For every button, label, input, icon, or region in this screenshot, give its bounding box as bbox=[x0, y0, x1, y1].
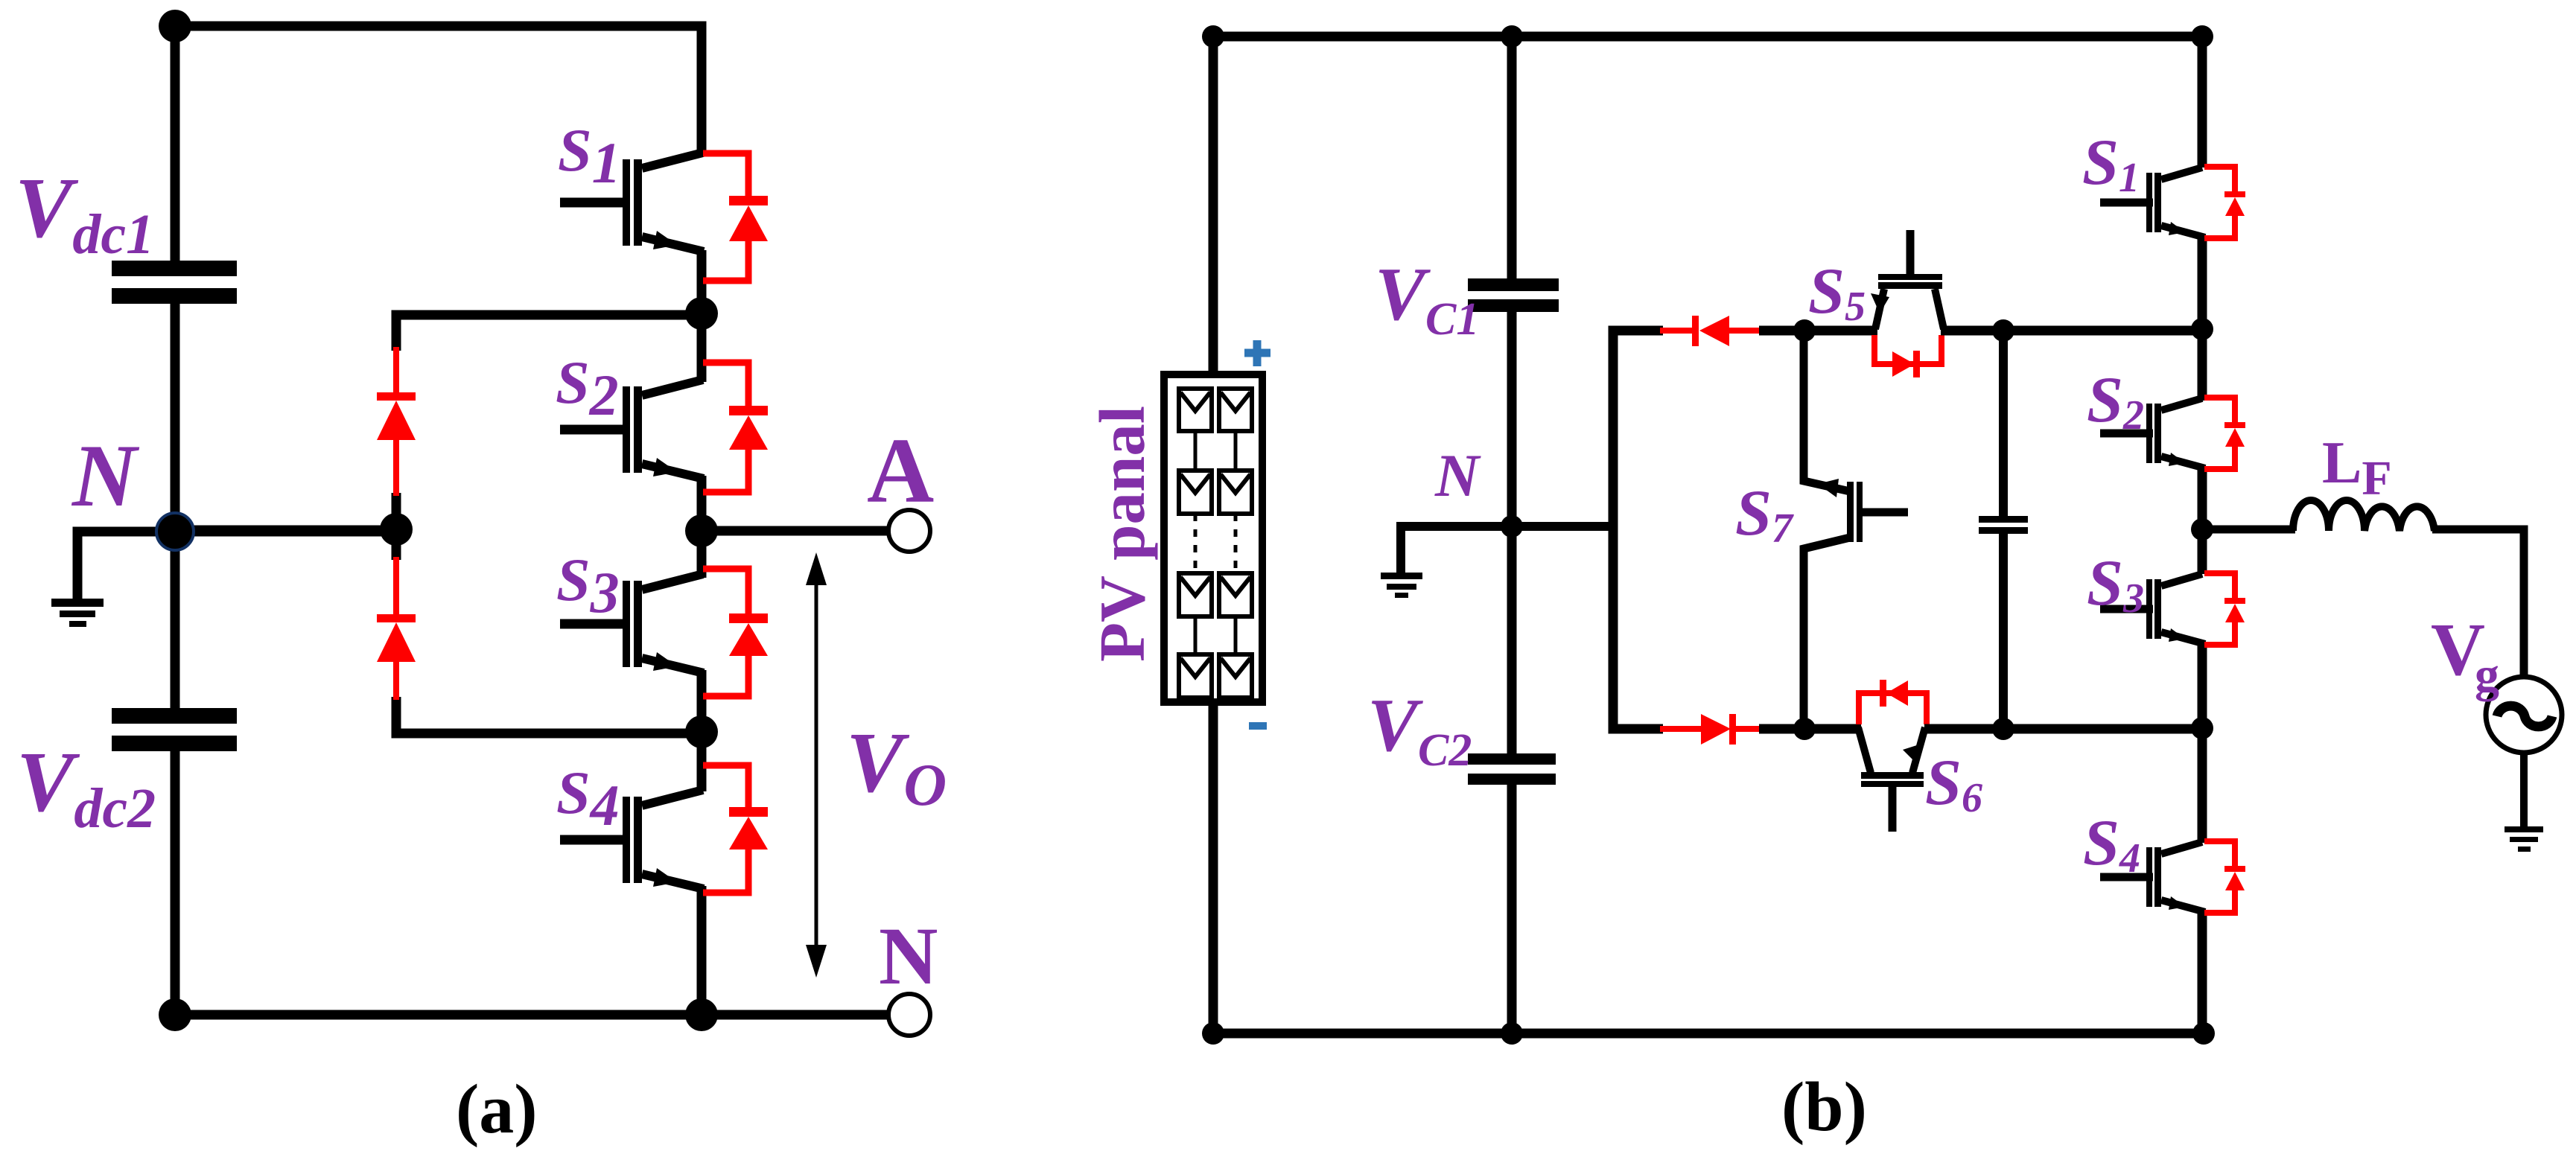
wire: VC1 to N bbox=[1507, 312, 1517, 754]
terminal N (circle, bottom) bbox=[888, 994, 930, 1036]
node: bottom rail at PV bbox=[1202, 1022, 1224, 1045]
wire: right rail segment top bbox=[2198, 36, 2207, 168]
svg-text:N: N bbox=[71, 426, 140, 525]
node: top rail at VC1 bbox=[1501, 25, 1523, 48]
svg-text:S3: S3 bbox=[2087, 547, 2144, 622]
capacitor Vdc2 (top plate) bbox=[112, 708, 237, 724]
diode D2 (anti-parallel of S2, red) bbox=[703, 363, 768, 492]
PV cell connectors (dashed) bbox=[1195, 514, 1235, 573]
wire: left vertical of S5/S6 cell bbox=[1613, 331, 1663, 729]
capacitor VC2 (plates) bbox=[1468, 753, 1556, 765]
PV panel outer box bbox=[1164, 374, 1262, 702]
arrow of S7 emitter bbox=[1818, 479, 1839, 497]
wire: S6 collector foot to S3-S4 node bbox=[1924, 724, 2204, 734]
node: S3-S4 junction (b) bbox=[2191, 717, 2213, 739]
wire: bottom rail (b) bbox=[1213, 1029, 2204, 1039]
capacitor VC1 (plates) bbox=[1468, 278, 1559, 291]
diode D10 (anti-parallel of S6, red, pointing left) bbox=[1859, 680, 1927, 724]
PV cell row2 col2 bbox=[1219, 471, 1252, 514]
svg-text:A: A bbox=[867, 420, 934, 523]
PV cell row2 col1 bbox=[1179, 471, 1212, 514]
diode D5 (upper clamp diode, red) bbox=[377, 347, 416, 496]
wire: switch rail segment S1-S2 bbox=[697, 250, 707, 382]
wire: S7 emitter vertical bbox=[1804, 331, 1850, 491]
svg-text:S1: S1 bbox=[558, 116, 621, 195]
wire: flying capacitor upper bbox=[1999, 331, 2008, 517]
wire: switch rail segment S2-S3 bbox=[697, 476, 707, 578]
node: S5 left bbox=[1793, 319, 1816, 342]
diode D3 (anti-parallel of S3, red) bbox=[703, 569, 768, 696]
svg-text:LF: LF bbox=[2322, 430, 2392, 506]
svg-text:S7: S7 bbox=[1735, 477, 1794, 552]
wire: mask capacitor gap Vdc1 bbox=[170, 276, 180, 288]
svg-text:S2: S2 bbox=[2087, 364, 2144, 439]
transistor S5 (IGBT, horizontal) bbox=[1871, 230, 1944, 329]
svg-text:N: N bbox=[879, 911, 938, 1001]
diode D7 (top input diode, red, pointing left) bbox=[1660, 316, 1762, 346]
wire: clamp branch upper black stubs bbox=[396, 315, 702, 351]
svg-text:S1: S1 bbox=[2082, 127, 2140, 201]
wire: S5 node to S5 emitter foot bbox=[1804, 326, 1877, 336]
diode D1 (anti-parallel of S1, red) bbox=[703, 153, 768, 281]
transistor S4 (IGBT) bbox=[560, 790, 704, 889]
svg-text:S4: S4 bbox=[556, 759, 620, 838]
terminal A (circle) bbox=[888, 510, 930, 552]
node: S6 left bbox=[1793, 718, 1816, 740]
wire: N (b) to ground bbox=[1401, 526, 1512, 575]
wire: N node to ground (a) bbox=[77, 532, 175, 600]
svg-text:(b): (b) bbox=[1781, 1068, 1867, 1146]
node: top-left corner (a) bbox=[159, 10, 191, 42]
transistor S1 (b) bbox=[2100, 168, 2205, 238]
node: top rail at PV bbox=[1202, 25, 1224, 48]
wire: inductor to grid corner bbox=[2432, 529, 2524, 678]
node: output junction (b) bbox=[2191, 518, 2213, 541]
wire: N (b) to clamp-cell vertical bbox=[1512, 522, 1613, 531]
wire: right rail segment S4-bottom bbox=[2198, 912, 2207, 1033]
flying capacitor plates bbox=[1979, 516, 2028, 523]
wire: right rail segment S3-S4 bbox=[2198, 643, 2207, 843]
svg-text:VC2: VC2 bbox=[1367, 683, 1472, 776]
ground symbol (b) bbox=[1381, 573, 1422, 598]
wire: flying capacitor lower bbox=[1999, 534, 2008, 729]
sine symbol inside Vg bbox=[2497, 706, 2552, 727]
label + (blue) bbox=[1244, 340, 1270, 366]
wire: VC2 to bottom rail bbox=[1507, 785, 1517, 1033]
diode D3 (b) anti-parallel of S3, red bbox=[2204, 573, 2245, 645]
wire: clamp branch lower black stubs bbox=[392, 531, 401, 560]
node: top rail right bbox=[2191, 25, 2213, 48]
wire: output to inductor bbox=[2202, 526, 2295, 534]
node: S5 right / flying cap top bbox=[1992, 319, 2014, 342]
svg-text:S4: S4 bbox=[2083, 807, 2140, 882]
capacitor Vdc1 (top plate) bbox=[112, 261, 237, 276]
svg-text:S5: S5 bbox=[1808, 255, 1866, 330]
svg-text:VC1: VC1 bbox=[1375, 252, 1479, 345]
node N (a) with navy ring bbox=[156, 513, 194, 550]
svg-text:Vdc1: Vdc1 bbox=[15, 161, 154, 266]
svg-text:S3: S3 bbox=[556, 546, 620, 625]
PV cell row3 col1 bbox=[1179, 573, 1212, 616]
node N (b) bbox=[1501, 515, 1523, 538]
node: bottom rail at VC2 bbox=[1501, 1022, 1523, 1045]
wire: S5 collector foot to flying-cap node bbox=[1941, 326, 2206, 336]
PV cell row4 col1 bbox=[1179, 654, 1212, 698]
label - (blue) bbox=[1249, 722, 1267, 730]
node: bottom-left corner (a) bbox=[159, 998, 191, 1031]
transistor S4 (b) bbox=[2100, 842, 2205, 912]
wire: N node to clamp branch bbox=[175, 526, 396, 537]
transistor S2 (IGBT) bbox=[560, 380, 704, 479]
svg-text:PV panal: PV panal bbox=[1086, 406, 1158, 662]
wire: right rail segment S1-S2 bbox=[2198, 237, 2207, 401]
transistor S3 (IGBT) bbox=[560, 574, 704, 673]
node: output A junction bbox=[685, 514, 718, 547]
source Vg (AC circle) bbox=[2486, 677, 2562, 753]
wire: top rail (a) bbox=[175, 26, 702, 1015]
wire: switch rail segment S3-S4 bbox=[697, 670, 707, 791]
svg-text:VO: VO bbox=[846, 715, 947, 818]
PV cell row3 col2 bbox=[1219, 573, 1252, 616]
PV cell row1 col1 bbox=[1179, 389, 1212, 431]
transistor S2 (b) bbox=[2100, 398, 2205, 468]
wire: A output lead bbox=[702, 526, 888, 536]
diode D6 (lower clamp diode, red) bbox=[377, 557, 416, 700]
diode D8 (bottom input diode, red, pointing right) bbox=[1660, 714, 1762, 745]
PV cell row4 col2 bbox=[1219, 654, 1252, 698]
node: clamp midpoint bbox=[380, 513, 413, 546]
wire: switch rail segment S4-bottom bbox=[697, 886, 707, 1015]
node: bottom rail right (b) bbox=[2192, 1022, 2215, 1045]
node: S6 right / flying cap bottom bbox=[1992, 718, 2014, 740]
transistor S3 (b) bbox=[2100, 574, 2205, 644]
svg-text:(a): (a) bbox=[456, 1071, 538, 1148]
transistor S7 (IGBT, mirrored) bbox=[1847, 482, 1908, 542]
node: S1-S2 junction (b) bbox=[2191, 318, 2213, 340]
capacitor Vdc2 (bottom plate) bbox=[112, 736, 237, 751]
wire: bottom rail (a) bbox=[175, 1010, 889, 1020]
svg-text:S6: S6 bbox=[1925, 747, 1982, 821]
wire: PV panel bottom lead bbox=[1209, 699, 1218, 1033]
wire: S7 collector vertical bbox=[1804, 538, 1850, 729]
transistor S1 (IGBT) bbox=[560, 153, 704, 252]
svg-text:S2: S2 bbox=[556, 348, 619, 427]
svg-text:N: N bbox=[1434, 441, 1481, 509]
wire: bottom row red diode to S6 node bbox=[1759, 724, 1808, 734]
node: S3-S4 junction bbox=[685, 715, 718, 748]
wire: right rail segment S2-S3 bbox=[2198, 468, 2207, 574]
wire: mask capacitor gap Vdc2 bbox=[170, 724, 180, 736]
wire: top rail (b) bbox=[1213, 32, 2202, 42]
wire: Vg to ground bbox=[2520, 752, 2528, 831]
transistor S6 (IGBT, horizontal inverted) bbox=[1858, 727, 1925, 832]
diode D9 (anti-parallel of S5, red, pointing right) bbox=[1874, 335, 1941, 377]
wire: PV panel top lead bbox=[1209, 32, 1218, 377]
node: bottom rail junction (a) bbox=[685, 998, 718, 1031]
wire: top row red diode to S5 node bbox=[1759, 326, 1808, 336]
arrow Vo (double-headed) bbox=[806, 552, 827, 978]
PV cell row1 col2 bbox=[1219, 389, 1252, 431]
node: S1-S2 junction bbox=[685, 297, 718, 330]
svg-text:Vg: Vg bbox=[2431, 608, 2499, 702]
diode D1 (b) anti-parallel of S1, red bbox=[2204, 167, 2245, 238]
diode D4 (anti-parallel of S4, red) bbox=[703, 765, 768, 893]
diode D4 (b) anti-parallel of S4, red bbox=[2204, 841, 2245, 913]
capacitor Vdc1 (bottom plate) bbox=[112, 288, 237, 304]
wire: VC1 rail upper bbox=[1507, 36, 1517, 279]
PV cell connectors (solid) bbox=[1195, 431, 1235, 654]
wire: S6 node to S6 emitter foot bbox=[1804, 724, 1861, 734]
diode D2 (b) anti-parallel of S2, red bbox=[2204, 398, 2245, 469]
ground symbol (a) bbox=[51, 599, 104, 627]
ground symbol (Vg) bbox=[2505, 826, 2543, 852]
inductor LF (4 humps) bbox=[2293, 500, 2435, 531]
